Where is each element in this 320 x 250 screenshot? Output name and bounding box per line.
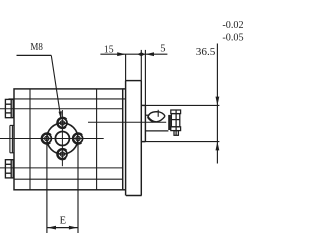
bolt N thread arc (57, 117, 67, 128)
body bottom edge extension (123, 189, 126, 191)
bolt S thread arc (57, 148, 67, 159)
M8 leader shelf (17, 54, 52, 56)
arrow right at x126 (117, 52, 125, 56)
M8 leader line (51, 55, 61, 119)
shaft nut (171, 110, 181, 135)
bolt W inner (45, 136, 49, 140)
bolt N outer (58, 118, 67, 127)
arrow left tip E (48, 226, 57, 230)
bolt S outer (58, 150, 67, 159)
section joint line left (29, 89, 31, 190)
bolt S inner (60, 152, 64, 156)
centerline plug1 (0, 108, 123, 110)
svg-text:15: 15 (104, 44, 114, 55)
diamond arrow at x141 (137, 52, 145, 56)
woodruff key (148, 110, 165, 122)
bolt E outer (73, 134, 82, 143)
svg-text:36.5: 36.5 (196, 46, 216, 58)
bolt W outer (42, 134, 51, 143)
body horizontal line y179 (14, 178, 123, 180)
shaft centerline (88, 121, 166, 123)
hex plug P2 (left lower) (5, 160, 13, 178)
big mounting circle (47, 123, 78, 154)
svg-text:M8: M8 (30, 42, 43, 53)
dimension 36.5 (right) (141, 44, 219, 164)
center hub circle (55, 132, 69, 146)
dimension line 15 and 5 (top) (100, 50, 167, 106)
arrow up to y141.6 (216, 142, 220, 151)
svg-text:5: 5 (160, 44, 165, 55)
svg-text:-0.02: -0.02 (222, 20, 243, 31)
svg-text:-0.05: -0.05 (222, 33, 243, 44)
arrow down to y105.4 (216, 97, 220, 106)
svg-text:E: E (60, 216, 66, 227)
bolt W thread arc (41, 133, 51, 144)
side port boss (10, 125, 14, 152)
bolt E inner (76, 136, 80, 140)
centerline plug2 (0, 167, 123, 169)
bolt E thread arc (72, 133, 82, 144)
body horizontal line y99 (9, 98, 126, 100)
body top edge extension to cover (123, 88, 126, 90)
front cover (126, 81, 142, 196)
M8 leader arrowhead (59, 111, 62, 119)
dimension E (bottom) (47, 144, 78, 233)
flange bolt pattern (front projection) (41, 117, 82, 160)
pattern vertical centerline (61, 110, 63, 166)
shaft washer/step (168, 115, 171, 130)
centerline pattern horizontal (0, 138, 104, 140)
arrow left at x145.4 (146, 52, 154, 56)
section joint line right (96, 89, 98, 190)
hex plug P1 (left upper) (5, 99, 13, 117)
mounting flange plate (141, 105, 145, 141)
bolt N inner (60, 121, 64, 125)
arrow right tip E (69, 226, 78, 230)
shaft top line (145, 114, 149, 116)
pump body outline (14, 89, 123, 190)
shaft bottom line (145, 130, 168, 132)
